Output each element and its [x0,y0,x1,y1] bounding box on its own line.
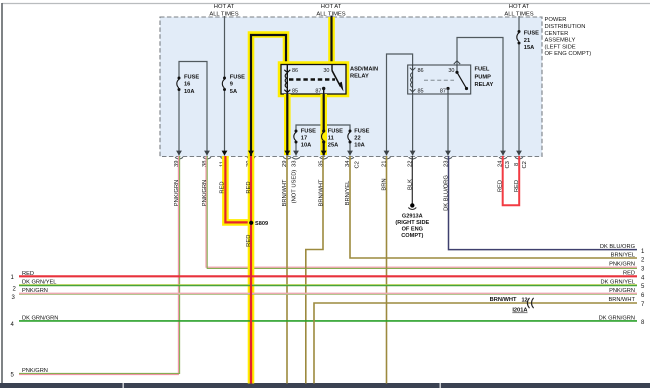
svg-text:DISTRIBUTION: DISTRIBUTION [545,24,586,30]
fuse 9 label [230,74,245,94]
left side wire labels and numbers [22,271,58,374]
svg-text:RED: RED [22,271,34,277]
svg-text:FUSE: FUSE [301,129,316,135]
svg-text:12: 12 [522,298,528,304]
fuse 22 label [354,129,369,149]
fuse F22 symbol [348,130,352,144]
wire pnk/grn from pin 38 down, right to edge (line 3) [206,156,637,268]
svg-text:FUEL: FUEL [475,67,490,73]
wire brn/wht from pin 29 down to bottom [286,156,288,384]
wire brn/yel from pin 34 down, right to edge (line 2) [350,156,637,258]
svg-text:(NOT USED): (NOT USED) [291,170,297,204]
ASD relay switch blade from pin 30 [331,65,333,71]
fuse F9 symbol [222,77,226,92]
fuse F21 symbol [517,30,521,45]
hot at all times label 1 [209,4,238,18]
splice S809 [249,221,253,225]
svg-text:RED: RED [623,271,635,277]
wire red (hi) trunk from pin 30 down to bottom [248,156,255,384]
hot at all times label 3 [504,4,533,18]
yellow highlighted trunk: pin 30 wire up and over to ASD relay pin 86 [251,35,286,157]
wire dk blu/org from pin 23 down, right to edge (line 1) [449,156,638,250]
fuse 11 label [328,129,343,149]
yellow highlighted wire: hot at all times 2 down to ASD relay pin 30 [328,17,335,65]
svg-text:FUSE: FUSE [524,31,539,37]
svg-text:HOT AT: HOT AT [509,4,530,10]
wire: feed from hot-at-all-times 3 to fuse 21 [518,16,520,32]
FUEL PUMP relay U2 box [408,65,471,94]
fuse F17 symbol [294,130,298,144]
wire red U-loop pin 24 to pin 8 [503,156,520,205]
ASD relay pin labels [292,68,330,95]
svg-text:30: 30 [448,68,454,74]
fuel relay pin 30 up-arrow [454,61,460,64]
svg-text:10A: 10A [301,143,311,149]
svg-text:G2913A: G2913A [402,214,423,220]
horizontal wire red full width (left 1 / right 4) [19,275,637,277]
svg-text:PNK/GRN: PNK/GRN [174,180,180,206]
svg-text:PNK/GRN: PNK/GRN [202,180,208,206]
fuel relay pin labels [418,68,455,95]
svg-text:17: 17 [301,136,307,142]
svg-text:RED: RED [246,235,252,247]
ASD relay contact dashed line [289,78,335,81]
svg-text:22: 22 [354,136,360,142]
svg-text:FUSE: FUSE [184,74,199,80]
svg-text:BRN/YEL: BRN/YEL [345,180,351,206]
arrowheads at PDC bottom border [176,151,522,156]
svg-text:BRN/WHT: BRN/WHT [282,179,288,207]
wire red trunk core overlay at crossings [250,270,252,384]
svg-text:PNK/GRN: PNK/GRN [609,262,635,268]
svg-text:POWER: POWER [545,17,567,23]
svg-text:RED: RED [514,180,520,192]
svg-text:RELAY: RELAY [475,82,494,88]
power distribution center box (dashed, light blue) [160,17,542,157]
svg-text:DK GRN/YEL: DK GRN/YEL [601,279,635,285]
top window edge line [2,3,650,5]
svg-text:RED: RED [219,181,225,193]
svg-text:S809: S809 [255,221,268,227]
wire blk from pin 22 down to ground [411,156,413,204]
ground G2913A [410,203,414,207]
fuel relay contact dashed line [424,79,454,81]
svg-text:BRN: BRN [382,178,388,190]
svg-text:86: 86 [292,68,298,74]
svg-text:33: 33 [291,161,297,167]
svg-text:11: 11 [328,136,334,142]
svg-text:I201A: I201A [512,308,527,314]
gray fuse branch bus [296,125,350,156]
fuse 21 label [524,31,539,52]
wire brn from pin 21 down to bottom [386,156,388,384]
svg-text:HOT AT: HOT AT [214,4,235,10]
svg-text:FUSE: FUSE [354,129,369,135]
fuse 17 label [301,129,316,149]
svg-text:16: 16 [184,82,190,88]
svg-text:C2: C2 [522,161,528,168]
svg-text:PNK/GRN: PNK/GRN [609,288,635,294]
svg-text:10A: 10A [354,143,364,149]
svg-text:21: 21 [524,38,530,44]
svg-text:PNK/GRN: PNK/GRN [22,288,48,294]
svg-text:HOT AT: HOT AT [321,4,342,10]
wire: fuel pump relay pin 30 up and over down to pin 24 [457,38,503,156]
horizontal wire pnk/grn full width (left 3 / right 6) [19,292,637,294]
ASD/MAIN RELAY name [350,67,378,80]
svg-text:BRN/YEL: BRN/YEL [611,252,635,258]
bottom status bar [0,383,650,388]
svg-text:5A: 5A [230,89,237,95]
svg-text:BLK: BLK [407,179,413,190]
svg-text:9: 9 [230,82,233,88]
right side wire labels and numbers [599,244,636,321]
wire: feed from hot-at-all-times 1 to fuse 9 [224,16,226,77]
FUEL PUMP RELAY name [475,67,494,89]
connector cups below PDC border [175,157,523,159]
wire: fuse 21 output down to pin 8 [518,43,520,156]
horizontal wire dk grn/yel full width (left 2 / right 5) [19,284,637,286]
left window edge line [1,3,3,384]
fuel relay coil branch 86-85 [410,65,416,94]
wire: fuse 9 output down to pin 11 [224,90,226,156]
svg-text:CENTER: CENTER [545,31,569,37]
wire: fuel relay pin 87 down to pin 23 [447,94,449,156]
svg-text:(LEFT SIDE: (LEFT SIDE [545,44,576,50]
ASD relay pin 87 stub [322,87,325,90]
svg-text:(RIGHT SIDE: (RIGHT SIDE [395,220,429,226]
svg-text:DK GRN/GRN: DK GRN/GRN [599,315,635,321]
svg-text:ASSEMBLY: ASSEMBLY [545,38,576,44]
svg-text:RED: RED [498,180,504,192]
svg-text:RELAY: RELAY [350,74,369,80]
fuel relay pin 87 stub [446,87,449,90]
svg-text:87: 87 [315,89,321,95]
ASD relay coil branch 86-85 [284,65,290,95]
svg-text:DK GRN/GRN: DK GRN/GRN [22,315,58,321]
svg-text:OF ENG COMPT): OF ENG COMPT) [545,51,592,57]
svg-text:OF ENG: OF ENG [402,227,423,233]
wire brn/wht from pin 35 down with jog left to bottom [306,156,323,384]
fuse 16 label [184,74,199,94]
horizontal wire dk grn/grn full width (left 4 / right 8) [19,320,637,322]
pin number labels below border [174,160,528,169]
fuse 16 loop wire (left leg to pin 39) [179,62,207,156]
svg-text:PNK/GRN: PNK/GRN [22,368,48,374]
svg-text:COMPT): COMPT) [401,233,423,239]
fuse F11 symbol (highlighted wire) [322,129,326,143]
yellow highlighted wire: ASD pin 85 down to pin 29 [284,94,291,155]
svg-text:85: 85 [418,89,424,95]
rotated wire color labels [174,170,520,247]
fuel relay switch blade [456,65,458,72]
wire red (hi) from pin 11 down, right to splice S809 [225,156,251,222]
svg-text:25A: 25A [328,143,338,149]
svg-text:FUSE: FUSE [328,129,343,135]
svg-text:85: 85 [292,89,298,95]
horizontal wire brn/wht (right 7) with corner down [314,303,637,384]
svg-text:15A: 15A [524,45,534,51]
fuse F16 symbol [177,77,181,92]
svg-text:DK BLU/ORG: DK BLU/ORG [600,244,635,250]
svg-text:PUMP: PUMP [475,74,492,80]
svg-text:FUSE: FUSE [230,74,245,80]
ASD/MAIN relay U1 highlighted box [281,65,346,95]
svg-text:C3: C3 [505,161,511,168]
svg-text:BRN/WHT: BRN/WHT [318,179,324,207]
svg-text:DK GRN/YEL: DK GRN/YEL [22,280,56,286]
svg-text:RED: RED [246,181,252,193]
wire: pin 21 up and over to fuel pump relay pin 86 [387,54,413,156]
svg-text:DK BLU/ORG: DK BLU/ORG [444,175,450,211]
power distribution center assembly text [545,17,592,57]
svg-text:10A: 10A [184,89,194,95]
yellow highlighted wire: ASD pin 87 down through fuse 11 to pin 35 [320,94,327,155]
svg-text:C2: C2 [355,161,361,168]
hot at all times label 2 [316,4,345,18]
svg-text:30: 30 [323,68,329,74]
svg-text:BRN/WHT: BRN/WHT [608,297,635,303]
svg-text:87: 87 [440,89,446,95]
svg-text:ASD/MAIN: ASD/MAIN [350,67,378,73]
wire: fuel relay pin 85 down to pin 22 [412,94,414,156]
svg-text:BRN/WHT: BRN/WHT [490,297,517,303]
wire pnk/grn from pin 39 down, left to edge (line 5) [19,156,180,375]
svg-text:86: 86 [418,68,424,74]
